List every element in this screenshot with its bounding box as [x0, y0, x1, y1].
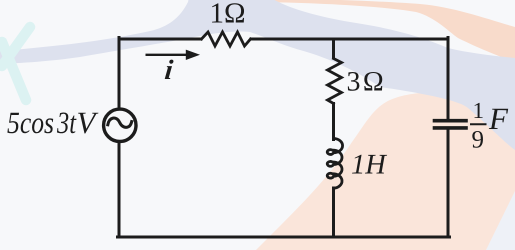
wire: top rail from 1-ohm resistor to middle-branch junction: [251, 38, 334, 41]
wire: top rail from source top corner to 1-ohm resistor: [119, 38, 201, 41]
wire: top rail from middle-branch junction to right branch corner: [334, 38, 449, 41]
label capacitor fraction bar: [470, 123, 487, 125]
resistor R 1ohm (series, top rail): [202, 32, 251, 46]
AC source Vs (circle): [104, 109, 136, 141]
wire: middle branch bottom lead: [332, 188, 335, 237]
svg-text:V: V: [77, 105, 99, 140]
svg-text:1: 1: [473, 98, 485, 123]
wire: middle branch between 3-ohm and inductor: [332, 104, 335, 140]
svg-text:5cos: 5cos: [7, 105, 54, 140]
wire: right branch upper lead: [447, 38, 450, 120]
wire: left branch upper lead (source top): [118, 38, 121, 108]
wire: right branch lower lead: [447, 130, 450, 237]
AC source sine wave: [108, 118, 132, 127]
resistor R 3ohm (middle branch): [328, 59, 342, 104]
capacitor C 1/9 F top plate: [435, 119, 467, 123]
current arrow i (shaft): [146, 54, 189, 56]
svg-text:3 Ω: 3 Ω: [347, 67, 384, 98]
svg-text:1H: 1H: [351, 150, 387, 181]
capacitor C 1/9 F bottom plate: [435, 126, 467, 130]
current arrow i (head): [186, 50, 200, 60]
svg-text:1Ω: 1Ω: [210, 0, 246, 30]
wire: left branch lower lead (source bottom): [118, 143, 121, 237]
svg-text:F: F: [488, 101, 509, 136]
svg-text:9: 9: [472, 127, 485, 154]
inductor L 1H (middle branch): [327, 139, 342, 189]
wire: bottom return rail: [118, 236, 450, 239]
svg-text:3t: 3t: [56, 105, 77, 140]
wire: middle branch top lead: [332, 39, 335, 57]
